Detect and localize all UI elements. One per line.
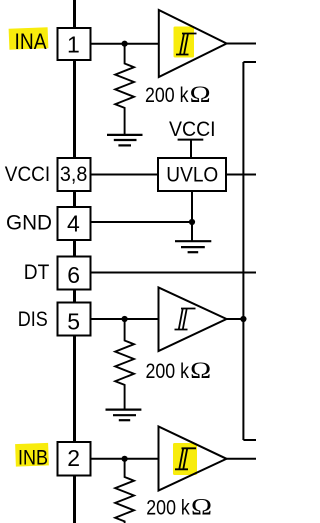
svg-text:DIS: DIS: [18, 308, 48, 331]
svg-text:INA: INA: [15, 29, 47, 54]
svg-text:6: 6: [67, 262, 80, 288]
wire GND net: [91, 221, 193, 223]
pin 4 box: [58, 207, 91, 240]
ground GND net: [175, 241, 211, 252]
ground under R2: [106, 410, 142, 421]
svg-text:GND: GND: [6, 212, 52, 235]
svg-text:UVLO: UVLO: [166, 163, 218, 187]
highlight schmitt symbol U1: [174, 27, 195, 58]
pin 1 box: [58, 28, 91, 60]
wire IC boundary bus: [73, 0, 76, 523]
svg-text:200 kΩ: 200 kΩ: [146, 495, 212, 520]
pin 5 box: [58, 303, 91, 336]
wire DIS buffer output: [227, 318, 244, 320]
op-amp buffer U3 INB schmitt: [159, 427, 227, 491]
output block right: [243, 62, 256, 440]
node DIS junction: [122, 316, 128, 322]
wire INB to buffer: [91, 458, 159, 460]
svg-text:4: 4: [67, 211, 80, 237]
VCCI power tap: [169, 118, 216, 158]
svg-text:3,8: 3,8: [60, 163, 88, 186]
pin 2 box: [58, 442, 91, 476]
svg-text:200 kΩ: 200 kΩ: [146, 358, 212, 383]
resistor R1 200k: [115, 44, 134, 135]
node INA junction: [122, 41, 128, 47]
wire DT: [91, 272, 257, 274]
resistor R3 200k: [115, 459, 134, 523]
op-amp buffer U1 INA schmitt: [159, 10, 227, 77]
svg-text:1: 1: [67, 31, 80, 57]
wire U3 output: [227, 458, 257, 460]
svg-text:200 kΩ: 200 kΩ: [145, 82, 211, 107]
ground under R1: [107, 135, 143, 146]
svg-text:INB: INB: [18, 447, 48, 470]
resistor R2 200k: [115, 319, 134, 410]
node GND junction: [189, 219, 195, 225]
node output junction on block edge: [240, 316, 246, 322]
svg-text:5: 5: [67, 309, 80, 335]
wire VCCI to UVLO: [91, 174, 159, 176]
op-amp buffer U2b DIS schmitt: [159, 288, 227, 352]
wire DIS to buffer: [91, 318, 159, 320]
highlight schmitt symbol U3: [173, 443, 197, 475]
svg-text:2: 2: [67, 445, 80, 471]
highlight INA label: [9, 27, 49, 49]
svg-text:VCCI: VCCI: [169, 118, 216, 141]
pin 6 box: [58, 257, 91, 290]
pin 3,8 box: [58, 158, 91, 191]
highlight INB label: [15, 443, 49, 467]
svg-text:DT: DT: [24, 261, 50, 284]
svg-text:VCCI: VCCI: [5, 163, 50, 186]
wire UVLO output: [226, 174, 256, 176]
wire U1 output: [227, 43, 256, 45]
wire UVLO ground stem: [191, 191, 193, 241]
node INB junction: [122, 456, 128, 462]
wire INA to buffer: [91, 43, 160, 45]
UVLO block U2: [158, 158, 226, 191]
